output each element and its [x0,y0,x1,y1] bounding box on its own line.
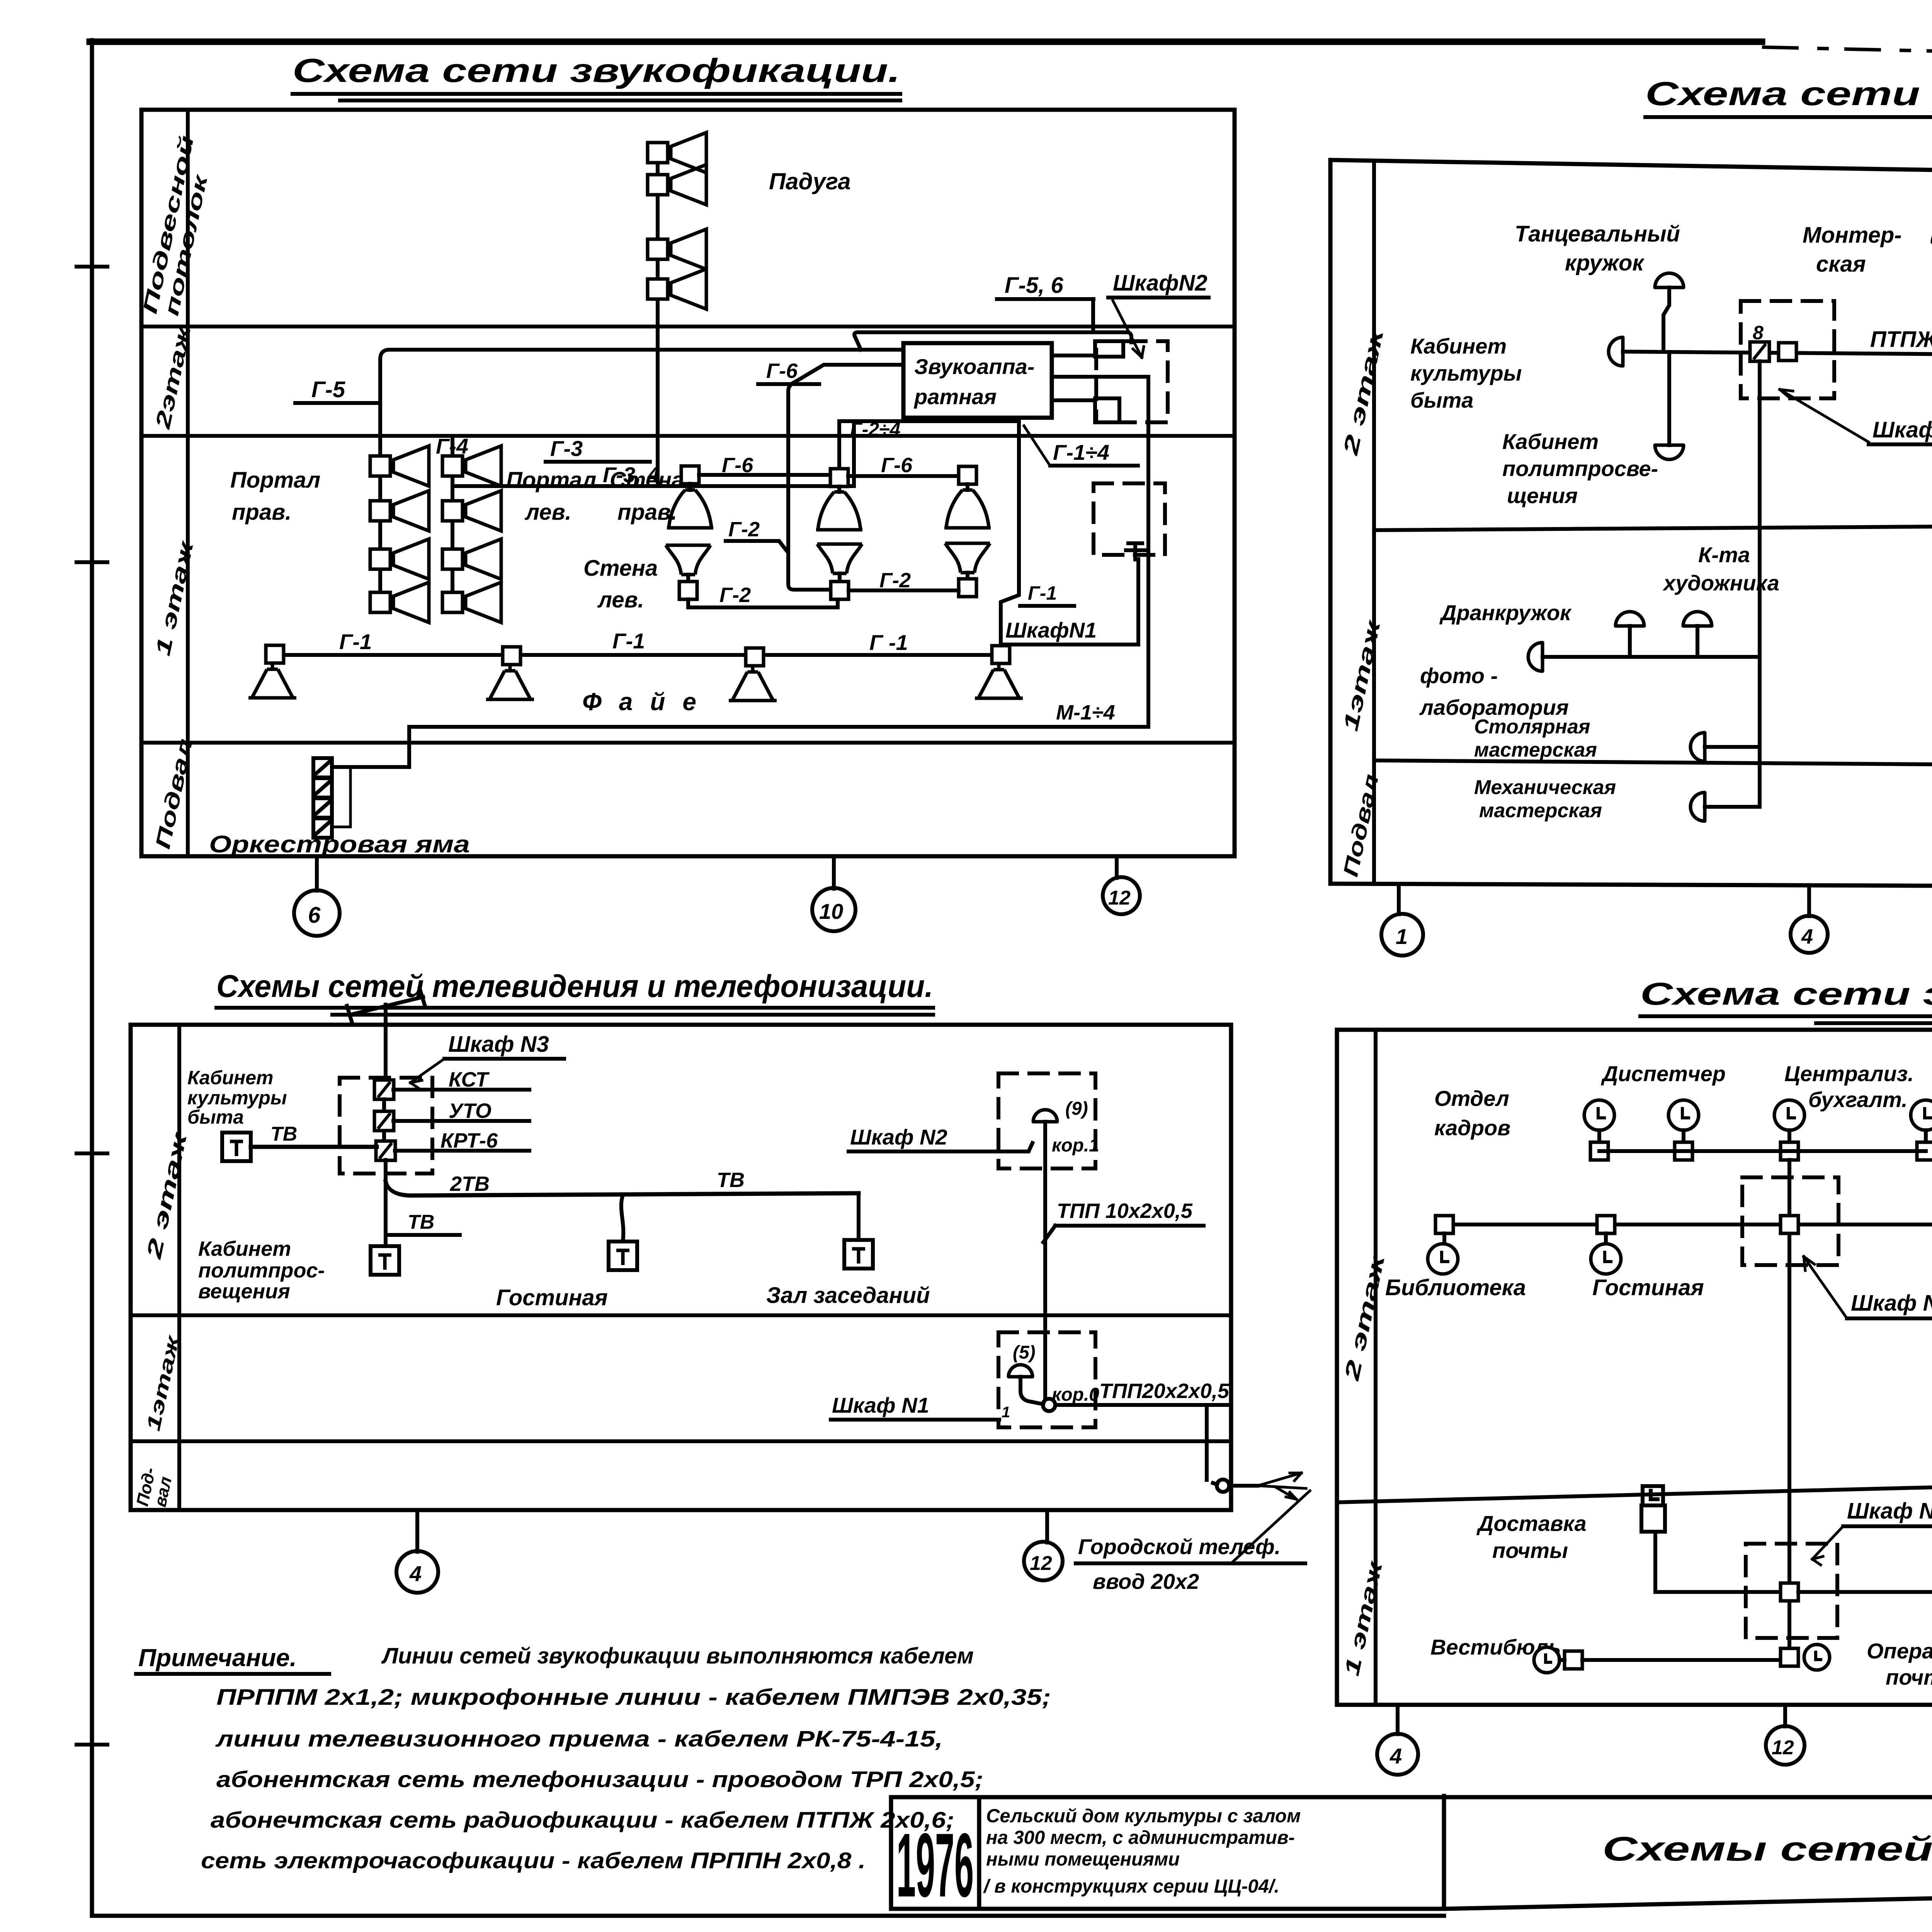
svg-text:Г-1: Г-1 [612,629,645,653]
svg-text:Г-1: Г-1 [1028,582,1057,604]
cabinet N3 dashed box (TV) [340,1078,432,1173]
wire microphone stack jog [332,768,350,827]
secondary clock Доставка почты [1641,1486,1665,1532]
floor label column divider [186,110,190,856]
wire Г-6 right span [848,474,959,478]
svg-text:бухгалт.: бухгалт. [1808,1087,1908,1112]
svg-text:Схема сети электрочасофикаци: Схема сети электрочасофикации. [1640,976,1932,1012]
TV outlet Гостиная [609,1242,637,1270]
svg-text:Примечание.: Примечание. [138,1644,297,1672]
connecting link between squares [382,1099,386,1142]
svg-text:Г-6: Г-6 [722,454,753,477]
title underline [293,94,900,100]
wall speaker Стена прав: cup down [688,484,692,490]
axis stem 6 [315,856,319,891]
wall speaker right top: square [959,466,976,484]
clock 3 (Централиз.) [1774,1100,1804,1130]
svg-text:быта: быта [1410,388,1473,412]
clock 2 (Диспетчер) [1668,1100,1699,1130]
central riser [1787,1160,1791,1648]
svg-text:Диспетчер: Диспетчер [1601,1061,1726,1086]
svg-text:художника: художника [1662,571,1779,595]
svg-text:сеть электрочасофикации - каб: сеть электрочасофикации - кабелем ПРППН … [201,1848,866,1873]
axis circle 12 [1766,1726,1804,1765]
wire: bundle Г-2÷4 below equipment room [839,419,1019,423]
underline Шкаф N2 [1108,296,1209,299]
stem clock 3 [1787,1130,1791,1142]
wire Г-5,6 top run to cabinet N2 [854,332,1131,350]
svg-text:Портал: Портал [506,468,596,493]
wire ТВ to cabinet [251,1145,377,1149]
outlet: фотолаборатория [1528,643,1543,671]
svg-text:8: 8 [1753,322,1764,344]
clock Операционный зал [1804,1645,1830,1670]
square clock 3 [1781,1142,1798,1160]
svg-text:Библиотека: Библиотека [1385,1275,1526,1300]
svg-text:быта: быта [187,1106,244,1128]
svg-text:ПРППМ 2х1,2; микрофонные лин: ПРППМ 2х1,2; микрофонные линии - кабелем… [216,1685,1051,1710]
svg-text:12: 12 [1772,1736,1794,1759]
svg-text:кор.1: кор.1 [1052,1135,1099,1156]
TV outlet Кабинет культуры [222,1133,251,1161]
TV outlet Кабинет политпросвещения [371,1246,399,1275]
underline Шкаф N3 [1869,442,1932,446]
axis stem 1 [1397,885,1401,914]
stem Библиотека [1442,1233,1446,1243]
underline Шкаф N3 with leader arrow [444,1057,564,1061]
microphone jack stack (4 boxes) [313,758,332,838]
floor line: 1st floor / basement [141,741,1235,745]
svg-text:Танцевальный: Танцевальный [1515,221,1680,247]
axis circle 12 [1024,1542,1063,1580]
fraction line [1076,1561,1305,1565]
axis circle 4 [1377,1734,1418,1775]
phone terminal Шкаф N1 [1009,1365,1032,1377]
underline Г-6 [758,382,819,386]
title underlines [1645,117,1932,124]
wire from equipment room to upper terminal [1052,354,1095,357]
stem clock 1 [1597,1130,1601,1142]
underline ТВ drop [389,1233,460,1237]
phone terminal Шкаф N2 [1033,1110,1057,1122]
cabinet N2 dashed box (clock) [1742,1177,1838,1265]
city entry junction circle [1217,1480,1229,1492]
speaker column Портал прав (4 horn speakers) [370,446,429,486]
wire Столярная to riser [1705,745,1760,749]
svg-text:Кабинет: Кабинет [1502,429,1599,454]
floor line: 2nd / 1st floor [1374,522,1932,530]
sheet top border [90,39,1762,45]
outlet: Механическая мастерская [1690,793,1705,821]
title underlines [1640,1016,1932,1023]
underline Примечание [136,1672,329,1676]
svg-text:М-1÷4: М-1÷4 [1056,701,1115,724]
riser below cabinet N3 [384,1160,388,1245]
wire 2ТВ distribution line [386,1182,859,1196]
clock 4 (Председатель) [1911,1100,1932,1130]
diagram box frame [1337,1030,1932,1705]
svg-text:политпрос-: политпрос- [198,1259,325,1282]
wall speaker Стена прав: square [681,466,699,484]
wire from junction circle to city line [1213,1483,1258,1486]
outlet: Танцевальный кружок [1655,273,1684,287]
wire from equipment room to lower terminal [1052,398,1095,402]
axis stem 12 [1045,1510,1049,1543]
floor label column divider [1374,1030,1378,1705]
stem clock 2 [1682,1130,1685,1142]
svg-text:ввод 20х2: ввод 20х2 [1093,1569,1199,1594]
pointer from label to city entry [1231,1491,1310,1563]
leader arrow to cabinet N2 [1113,301,1142,357]
leader line to cabinet N2 [849,1143,1032,1151]
wire Г-6 left span [699,473,830,477]
svg-text:щения: щения [1507,483,1578,508]
svg-text:Гостиная: Гостиная [1592,1275,1704,1300]
square clock 1 [1590,1142,1608,1160]
svg-text:4: 4 [1389,1744,1402,1768]
note block [136,1643,1051,1873]
svg-text:кадров: кадров [1434,1116,1510,1140]
underline Г-1÷4 with leader [1050,464,1138,468]
axis circle 12 [1103,877,1140,914]
axis stem 4 [1396,1705,1400,1734]
svg-text:2ТВ: 2ТВ [450,1172,490,1196]
speaker 1 of foyer run: square [266,645,284,663]
title block top edge [891,1795,1932,1799]
leader to cabinet N3 [1780,389,1869,442]
axis circle 1 [1381,914,1423,956]
svg-text:Кабинет: Кабинет [198,1237,291,1260]
svg-text:на 300 мест, с административ-: на 300 мест, с административ- [986,1827,1295,1848]
svg-text:культуры: культуры [1410,361,1522,385]
svg-text:Звукоаппа-: Звукоаппа- [914,354,1034,379]
floor label column divider [1372,161,1376,884]
TV antenna mast [384,1005,388,1080]
main line 2nd floor [1444,1223,1932,1226]
cabinet N1 dashed box (clock) [1746,1544,1837,1638]
svg-text:Шкаф N1: Шкаф N1 [1847,1498,1932,1524]
svg-text:линии телевизионного приема: линии телевизионного приема - кабелем РК… [215,1726,943,1752]
axis stem 12 [1783,1705,1787,1726]
main line ПТПЖ 2х1,2 [1623,352,1932,356]
axis stem 4 [1807,886,1811,916]
floor line: 1st floor / basement [131,1439,1231,1443]
axis stem 10 [832,856,836,889]
title block bottom edge [891,1883,1932,1909]
svg-text:мастерская: мастерская [1479,799,1602,822]
wire Механическая to riser [1705,805,1760,809]
svg-text:ТПП20х2х0,5: ТПП20х2х0,5 [1099,1379,1230,1403]
svg-text:Г-5: Г-5 [311,377,345,402]
clock Гостиная [1591,1244,1621,1274]
svg-text:4: 4 [1801,925,1813,948]
axis circle 10 [812,888,855,931]
wire Г-1 speaker run [275,653,992,657]
svg-text:абонечтская сеть радиофикаци: абонечтская сеть радиофикации - кабелем … [211,1808,954,1833]
TV antenna dipole bar [347,988,425,1024]
svg-text:кор.0: кор.0 [1052,1384,1099,1405]
svg-text:КСТ: КСТ [449,1068,490,1091]
svg-text:ратная: ратная [913,384,997,409]
cabinet N1 dashed box (phone) [998,1332,1095,1427]
svg-text:Кабинет: Кабинет [187,1067,274,1088]
svg-text:Шкаф N3: Шкаф N3 [448,1032,549,1057]
svg-text:вещения: вещения [198,1280,290,1303]
svg-text:Г-2: Г-2 [879,569,911,592]
underline Г-5 [295,401,380,405]
outlet: Кабинет культуры быта [1609,337,1623,366]
cabinet N1 ground mark [1126,543,1145,560]
svg-text:(5): (5) [1013,1342,1036,1363]
elbow from phone dome to junction [1020,1377,1043,1404]
svg-text:Монтер-: Монтер- [1803,223,1902,248]
svg-text:Столярная: Столярная [1474,716,1590,738]
svg-text:ТВ: ТВ [717,1168,745,1192]
speaker 4 bell [975,664,1023,698]
svg-text:Г-6: Г-6 [881,454,913,477]
cabinet N2 lower terminal box [1095,398,1119,422]
clock Вестибюль [1534,1647,1560,1673]
svg-text:почты: почты [1886,1665,1932,1689]
svg-text:Г-3: Г-3 [550,436,583,461]
floor line: 1st floor / basement [1374,760,1932,769]
svg-text:1976: 1976 [896,1814,974,1916]
floor label column divider [177,1025,181,1510]
city telephone entry fork [1258,1473,1306,1499]
underline Г-2 upper with tick [726,541,787,552]
outlet: Столярная мастерская [1690,733,1705,761]
svg-text:ными помещениями: ными помещениями [986,1849,1180,1870]
wire Г-2: from equipment room down to wall speakers [788,365,903,590]
wire microphone line М-1÷4 [333,727,1148,767]
svg-text:Шкаф N2: Шкаф N2 [850,1125,947,1149]
svg-text:6: 6 [308,903,321,928]
cabinet N3 plain square [1779,343,1796,361]
svg-text:Кабинет: Кабинет [1410,334,1507,358]
axis stem 4 [415,1510,419,1552]
square clock 2 [1675,1142,1692,1160]
svg-text:ШкафN1: ШкафN1 [1005,618,1097,642]
wire КСТ [393,1088,529,1092]
frame fold tick marks [77,267,107,1745]
floor line: 2nd / 1st floor [1337,1471,1932,1502]
junction circle [1043,1399,1055,1411]
axis circle 4 [1791,916,1828,953]
cabinet N3 slashed square [1750,342,1769,361]
wall speaker right bottom: cup up [945,543,990,573]
svg-text:Г-2: Г-2 [719,583,751,607]
svg-text:К-та: К-та [1698,543,1750,567]
svg-text:Схемы сетей.: Схемы сетей. [1602,1830,1932,1868]
wire drop to Зал заседаний TV [857,1194,861,1240]
axis circle 6 [294,890,340,936]
svg-text:Дранкружок: Дранкружок [1439,600,1572,625]
wall speaker left bottom: cup up [666,545,711,575]
wire drop to Гостиная TV [621,1195,623,1241]
svg-text:Механическая: Механическая [1474,776,1616,799]
wire Г-1 riser with dogleg [1001,421,1019,645]
stem clock 4 [1924,1130,1928,1142]
amplifier square КСТ [374,1080,394,1099]
title block vertical: year/description [977,1797,981,1909]
svg-text:политпросве-: политпросве- [1502,456,1658,481]
svg-text:ская: ская [1816,252,1866,277]
svg-text:фото -: фото - [1420,663,1498,688]
svg-text:Шкаф N2: Шкаф N2 [1851,1291,1932,1316]
wire Г-2 right span [849,588,959,592]
wire Г-2 loop under left wall speakers [688,599,838,607]
wire Г-5: from equipment room to right portal column [380,350,903,612]
svg-text:1: 1 [1396,924,1408,949]
svg-text:Стена: Стена [610,468,684,493]
outlet: К-та художника [1683,612,1712,626]
cabinet N2 dashed box (phone) [998,1073,1095,1168]
central square in cabinet N1 [1781,1583,1798,1601]
underline Г-1 riser [1020,604,1074,608]
wire: Падуга riser [656,143,660,486]
wire Г-6 riser to middle wall speaker [837,421,841,469]
wall speaker middle bottom: square [838,573,842,582]
underline ТПП10 with tick [1043,1226,1204,1242]
amplifier square КРТ-6 [376,1141,395,1160]
underline Шкаф N1 with leader up [1002,559,1138,645]
wall speaker right top: cup down [966,484,969,490]
svg-text:УТО: УТО [449,1099,492,1122]
diagram box frame [141,110,1235,856]
svg-text:Городской телеф.: Городской телеф. [1078,1534,1281,1559]
svg-text:Г-5, 6: Г-5, 6 [1005,273,1063,298]
wall speaker middle top: cup down [837,486,841,492]
svg-text:12: 12 [1108,887,1131,909]
underline Г-3 [546,460,650,464]
svg-text:прав.: прав. [617,500,677,525]
square Библиотека [1435,1216,1453,1233]
svg-text:Зал заседаний: Зал заседаний [766,1283,930,1308]
speaker 3 bell [729,667,777,701]
svg-text:Г -1: Г -1 [869,630,908,655]
svg-text:лев.: лев. [597,587,644,612]
wall speaker middle bottom: cup up [817,544,862,573]
svg-text:(9): (9) [1065,1099,1088,1119]
speaker column Портал лев (4 horn speakers) [442,446,501,486]
speaker 1 bell [248,664,296,698]
wire Доставка to cabinet N1 [1655,1532,1781,1592]
sheet bottom frame [92,1914,1444,1918]
svg-text:Г-1÷4: Г-1÷4 [1053,440,1109,464]
underline Шкаф N1 with tick [831,1418,999,1422]
svg-text:Г-1: Г-1 [339,629,372,654]
underline Г-5,6 with drop tick [997,299,1094,331]
svg-text:лев.: лев. [524,500,571,525]
svg-text:ТПП 10х2х0,5: ТПП 10х2х0,5 [1057,1199,1193,1223]
central square in cabinet N2 [1781,1216,1798,1233]
svg-text:Доставка: Доставка [1476,1511,1587,1536]
wire Вестибюль run [1560,1658,1781,1662]
wire to Милиция [1798,1590,1932,1594]
speaker 4: square [992,646,1010,663]
title block vertical: description/name [1442,1796,1446,1907]
wire Г-3,4 horizontal run [452,484,854,488]
diagram box frame [1330,160,1932,888]
stem of Танцевальный outlet [1663,287,1669,350]
clock 1 (Отдел кадров) [1584,1100,1614,1130]
axis stem 12 [1115,856,1119,878]
svg-text:Схема сети радиофикации.: Схема сети радиофикации. [1645,75,1932,112]
wire КРТ-6 [395,1149,529,1153]
svg-text:ТВ: ТВ [408,1211,434,1233]
floor line: 2nd / 1st floor [141,434,1235,438]
riser from cabinet N3 down to basement [1758,361,1762,807]
cabinet N1 dashed box [1094,483,1165,555]
svg-text:/ в конструкциях серии ЦЦ-0: / в конструкциях серии ЦЦ-04/. [983,1876,1279,1897]
svg-text:кружок: кружок [1565,250,1645,276]
cabinet N3 dashed box [1741,301,1834,398]
svg-text:1: 1 [1002,1404,1010,1421]
TV outlet Зал заседаний [844,1240,873,1269]
square Операционный зал [1781,1648,1798,1666]
outlet: Кабинет политпросвещения [1655,445,1684,459]
wire: corner from bundle down to Г-3,4 line [852,421,856,486]
square Вестибюль [1565,1651,1582,1669]
svg-text:Г-2÷4: Г-2÷4 [850,418,900,440]
svg-text:прав.: прав. [232,500,291,525]
svg-text:Операционный зал: Операционный зал [1867,1639,1932,1663]
svg-text:Г-6: Г-6 [766,359,798,383]
stem Гостиная [1604,1233,1608,1243]
svg-text:Портал: Портал [230,468,320,493]
svg-text:Отдел: Отдел [1434,1086,1509,1111]
wire to photo lab [1543,655,1760,659]
svg-text:4: 4 [409,1561,422,1586]
svg-text:мастерская: мастерская [1474,739,1597,761]
speaker 2: square [503,647,520,665]
square Гостиная [1597,1216,1615,1233]
svg-text:Падуга: Падуга [769,168,851,194]
svg-text:абонентская сеть телефонизац: абонентская сеть телефонизации - проводо… [216,1767,983,1792]
cabinet N2 upper terminal box [1095,341,1123,357]
svg-text:Гостиная: Гостиная [496,1285,608,1310]
stem of политпросвещения outlet [1667,352,1671,445]
wire trunk from equipment room down (М-1÷4 riser) [1052,377,1148,727]
underline ТПП20 [1098,1403,1229,1407]
wall speaker right bottom: square [966,573,969,579]
wall speaker middle top: square [830,469,848,486]
svg-text:ШкафN3: ШкафN3 [1872,417,1932,442]
wire Г-4 riser [451,439,454,612]
svg-text:ТВ: ТВ [270,1123,297,1145]
svg-text:ШкафN2: ШкафN2 [1113,270,1207,296]
svg-text:Схема сети звукофикации.: Схема сети звукофикации. [293,52,900,89]
svg-text:Централиз.: Централиз. [1784,1061,1914,1086]
wire ТПП20 run [1055,1405,1207,1480]
speaker group Падуга (4 horn speakers) [648,133,706,173]
svg-text:Стена: Стена [583,556,658,581]
axis circle 4 [396,1551,438,1593]
title block vertical: year box left [889,1797,893,1909]
underline Шкаф N2 with leader [1847,1316,1932,1320]
amplifier square УТО [374,1111,394,1131]
speaker 2 bell [486,665,534,699]
square clock 4 [1917,1142,1932,1160]
svg-text:10: 10 [819,899,843,923]
wall speaker left bottom: square [686,575,690,582]
svg-text:12: 12 [1030,1552,1052,1575]
outlet: Дранкружок [1616,612,1644,626]
floor line: ceiling / 2nd floor [141,325,1235,328]
equipment room box Звукоаппаратная [903,343,1052,418]
wire УТО [393,1119,529,1123]
svg-text:Сельский дом культуры с зал: Сельский дом культуры с залом [986,1806,1301,1827]
